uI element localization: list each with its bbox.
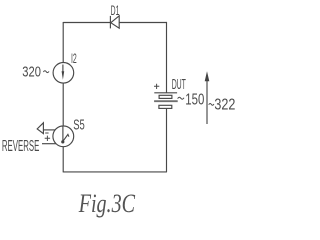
battery DUT middle long plate [154,100,178,102]
svg-text:D1: D1 [111,2,120,18]
battery DUT plus sign [154,84,159,89]
leader tilde for 150 [178,97,184,99]
reverse terminal upper lead wire [43,129,55,131]
diode D1 cathode bar [109,16,111,29]
battery DUT upper short plate [159,95,172,98]
svg-text:I2: I2 [71,50,77,66]
svg-text:320: 320 [22,63,41,80]
wire top-right segment [119,22,166,24]
diode D1 triangle [111,16,119,28]
switch source S5 circle [53,126,74,147]
current source I2 arrow shaft [62,65,64,73]
leader tilde for 320 [43,71,49,73]
wire top-left segment [63,22,110,24]
svg-text:DUT: DUT [172,77,186,93]
reverse minus sign [45,132,48,134]
current source I2 circle [53,63,74,84]
wire right lower (DUT battery to bottom) [166,108,168,171]
switch S5 lever [63,134,69,141]
reverse terminal arrow [37,123,43,134]
wire right upper (to DUT battery) [166,22,168,93]
arrow 322 line [206,81,208,125]
arrow 322 head [205,71,210,81]
svg-text:322: 322 [214,97,235,114]
wire left middle (I2 to S5) [62,83,64,126]
svg-text:REVERSE: REVERSE [2,138,40,155]
svg-text:S5: S5 [73,118,85,134]
reverse terminal lower lead wire [42,143,56,145]
svg-text:Fig.3C: Fig.3C [78,189,136,218]
wire bottom segment [63,171,167,173]
wire left lower (S5 to bottom corner) [62,147,64,173]
switch S5 pivot dot [61,140,64,143]
battery DUT top long plate [154,92,177,94]
switch S5 interior wire [62,126,64,141]
reverse plus sign [45,136,50,141]
svg-text:150: 150 [185,92,204,109]
wire left upper (top corner to I2) [62,22,64,63]
leader tilde for 322 [209,103,214,105]
battery DUT lower short plate [159,105,172,108]
current source I2 arrowhead [62,71,65,80]
